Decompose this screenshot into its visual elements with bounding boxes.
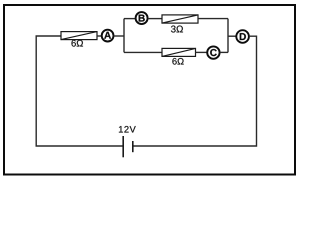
wire: R1 to node A	[97, 35, 102, 37]
wire: right junction vertical	[227, 19, 229, 53]
node D	[236, 30, 249, 43]
value label 12V for battery	[119, 126, 136, 132]
wire: node B to R2	[148, 18, 162, 20]
node B	[136, 12, 148, 24]
wire: top branch, junction to node B	[124, 18, 136, 20]
wire: R2 to right junction	[198, 18, 228, 20]
battery B1 12V: long (positive) plate	[122, 136, 124, 157]
wire: node C to right junction	[220, 51, 228, 53]
resistor R1 6Ω (top left)	[61, 32, 97, 40]
node A	[102, 30, 114, 42]
wire: left junction vertical	[123, 19, 125, 53]
wire: left loop from R1 left terminal, down left side to battery positive plate	[36, 36, 123, 146]
wire: bottom branch, junction to R3	[124, 51, 162, 53]
value label 6Ω for R3	[172, 58, 183, 65]
wire: node A to left junction	[114, 35, 125, 37]
wire: junction to node D	[228, 35, 236, 37]
resistor R3 6Ω (bottom branch)	[162, 48, 196, 56]
battery B1 12V: short (negative) plate	[132, 141, 134, 152]
resistor R2 3Ω (top branch)	[162, 15, 198, 23]
wire: node D right, down right side to battery negative plate	[133, 36, 257, 146]
node C	[207, 46, 219, 58]
value label 6Ω for R1	[71, 40, 82, 47]
value label 3Ω for R2	[171, 26, 183, 33]
wire: R3 to node C	[196, 51, 208, 53]
